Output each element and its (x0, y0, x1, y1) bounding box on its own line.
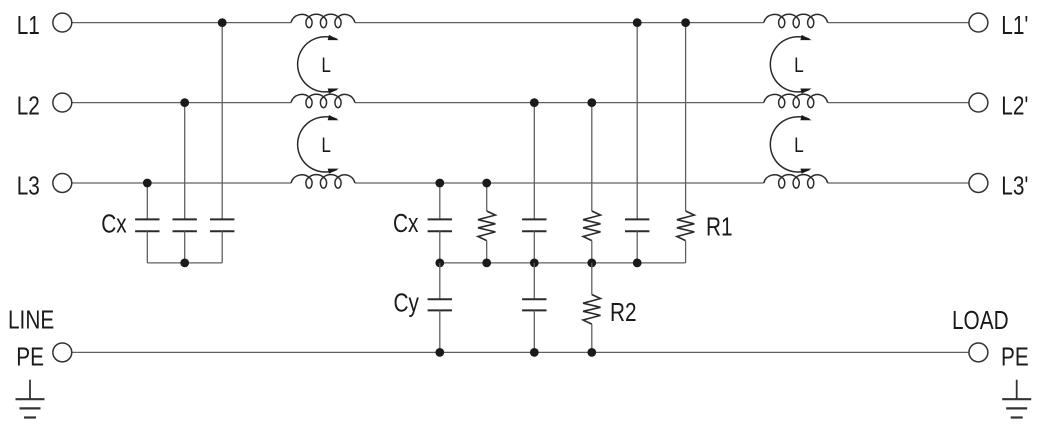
svg-text:LINE: LINE (8, 305, 54, 334)
terminal L1 (left) (53, 13, 72, 32)
wire mid star bus (440, 262, 686, 264)
capacitor Cx (mid, from L3) (439, 183, 441, 219)
arrowhead bottom choke1 lower (328, 169, 339, 174)
inductor L choke2 winding on L2 (764, 94, 828, 108)
svg-text:L: L (321, 134, 331, 157)
svg-text:PE: PE (1001, 342, 1029, 371)
arrowhead top choke2 lower (800, 115, 811, 120)
terminal L2' (right) (969, 93, 988, 112)
inductor L choke2 winding on L1 (764, 14, 828, 28)
capacitor Cy (bus to PE) (439, 263, 441, 299)
wire L3 right segment (828, 182, 969, 184)
inductor L choke2 winding on L3 (764, 175, 828, 188)
node bus junction 5 (633, 259, 642, 268)
node left-bank star point (180, 259, 189, 268)
wire left-bank star bus (147, 262, 222, 264)
node mid L3 junction a (435, 179, 444, 188)
capacitor (bus to PE, mid) (533, 263, 535, 299)
node bus junction 1 (435, 259, 444, 268)
wire L3 left segment (72, 182, 291, 184)
node mid L1 junction b (681, 18, 690, 27)
svg-text:L2: L2 (17, 91, 40, 120)
capacitor (mid, from L2) (533, 103, 535, 220)
arrowhead top choke2 upper (800, 35, 811, 40)
terminal PE (right) (969, 343, 988, 362)
svg-text:R1: R1 (706, 212, 733, 241)
ground symbol right (1016, 380, 1018, 400)
coupling arrow arc choke2 upper (770, 37, 809, 92)
wire L1 right segment (828, 22, 969, 24)
svg-text:Cx: Cx (101, 209, 127, 238)
svg-text:Cy: Cy (394, 288, 420, 317)
resistor R2 (bus to PE) (591, 263, 593, 295)
terminal L2 (left) (53, 93, 72, 112)
wire L1 left segment (72, 22, 291, 24)
svg-text:L1': L1' (1001, 11, 1028, 40)
terminal L1' (right) (969, 13, 988, 32)
arrowhead top choke1 lower (328, 115, 339, 120)
svg-text:L3: L3 (17, 171, 40, 200)
capacitor (mid, from L1) (636, 23, 638, 220)
svg-text:L2': L2' (1001, 91, 1028, 120)
capacitor Cx (left bank, from L3) (146, 183, 148, 219)
svg-text:Cx: Cx (393, 209, 419, 238)
svg-text:L1: L1 (17, 11, 40, 40)
coupling arrow arc choke1 lower (298, 117, 337, 172)
node left-bank L2 junction (180, 98, 189, 107)
terminal PE (left) (53, 343, 72, 362)
coupling arrow arc choke2 lower (770, 117, 809, 172)
node left-bank L1 junction (218, 18, 227, 27)
arrowhead bottom choke2 lower (800, 169, 811, 174)
capacitor Cx (left bank, from L1) (221, 23, 223, 220)
resistor (mid, from L2) (591, 103, 593, 211)
terminal L3' (right) (969, 174, 988, 193)
resistor R1 (from L1) (685, 23, 687, 211)
terminal L3 (left) (53, 174, 72, 193)
svg-text:LOAD: LOAD (952, 306, 1009, 335)
node bus junction 4 (587, 259, 596, 268)
node mid L2 junction a (530, 98, 539, 107)
capacitor Cx (left bank, from L2) (184, 103, 186, 220)
node PE junction 2 (530, 348, 539, 357)
node bus junction 2 (482, 259, 491, 268)
node PE junction 3 (587, 348, 596, 357)
svg-text:R2: R2 (610, 298, 637, 327)
wire L3 middle segment (355, 182, 764, 184)
arrowhead bottom choke1 upper (328, 89, 339, 94)
node mid L3 junction b (482, 179, 491, 188)
wire L2 right segment (828, 102, 969, 104)
arrowhead bottom choke2 upper (800, 89, 811, 94)
svg-text:L: L (321, 54, 331, 77)
node bus junction 3 (530, 259, 539, 268)
coupling arrow arc choke1 upper (298, 37, 337, 92)
node PE junction 1 (435, 348, 444, 357)
inductor L choke1 winding on L2 (291, 94, 355, 108)
svg-text:L: L (794, 54, 804, 77)
inductor L choke1 winding on L1 (291, 14, 355, 28)
svg-text:PE: PE (16, 342, 44, 371)
svg-text:L3': L3' (1001, 171, 1028, 200)
arrowhead top choke1 upper (328, 35, 339, 40)
node mid L1 junction a (633, 18, 642, 27)
wire L2 left segment (72, 102, 291, 104)
svg-text:L: L (794, 134, 804, 157)
inductor L choke1 winding on L3 (291, 175, 355, 188)
wire PE (72, 351, 969, 353)
resistor (mid, from L3) (486, 183, 488, 211)
node mid L2 junction b (587, 98, 596, 107)
node left-bank L3 junction (143, 179, 152, 188)
wire L1 middle segment (355, 22, 764, 24)
wire L2 middle segment (355, 102, 764, 104)
ground symbol left (29, 380, 31, 400)
